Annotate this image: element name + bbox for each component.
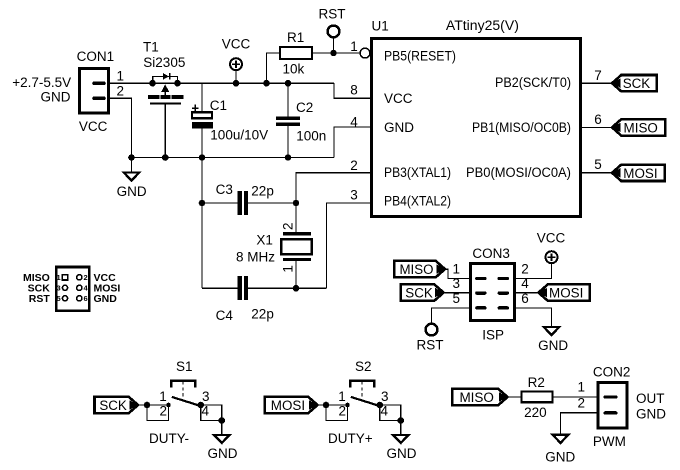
svg-text:PB4(XTAL2): PB4(XTAL2) (384, 193, 451, 208)
svg-text:CON3: CON3 (472, 246, 510, 261)
svg-text:R2: R2 (528, 375, 545, 390)
svg-text:8 MHz: 8 MHz (236, 250, 275, 265)
svg-text:5: 5 (57, 294, 61, 303)
svg-text:RST: RST (417, 338, 444, 353)
svg-text:PB3(XTAL1): PB3(XTAL1) (384, 165, 451, 180)
svg-text:MISO: MISO (459, 390, 494, 405)
svg-text:1: 1 (117, 68, 125, 83)
svg-text:SCK: SCK (405, 286, 433, 301)
svg-text:PB2(SCK/T0): PB2(SCK/T0) (495, 75, 571, 90)
svg-text:5: 5 (594, 157, 602, 172)
svg-text:2: 2 (521, 262, 529, 277)
svg-text:C2: C2 (296, 100, 313, 115)
svg-text:Si2305: Si2305 (143, 55, 185, 70)
svg-text:4: 4 (521, 276, 529, 291)
svg-text:GND: GND (94, 293, 118, 305)
svg-text:U1: U1 (372, 19, 389, 34)
svg-text:S2: S2 (355, 359, 372, 374)
svg-text:R1: R1 (287, 30, 304, 45)
svg-text:MOSI: MOSI (271, 398, 305, 413)
svg-text:RST: RST (319, 7, 346, 22)
svg-text:SCK: SCK (623, 76, 651, 91)
svg-text:2: 2 (339, 403, 347, 418)
svg-text:ISP: ISP (482, 327, 504, 342)
svg-text:VCC: VCC (79, 119, 108, 134)
svg-text:3: 3 (202, 389, 210, 404)
svg-text:2: 2 (350, 158, 358, 173)
svg-text:4: 4 (350, 114, 358, 129)
svg-text:22p: 22p (251, 306, 274, 321)
svg-text:1: 1 (159, 389, 167, 404)
svg-text:GND: GND (387, 446, 417, 461)
svg-text:VCC: VCC (384, 91, 413, 106)
svg-text:2: 2 (280, 222, 295, 230)
svg-text:4: 4 (202, 403, 210, 418)
svg-text:1: 1 (338, 389, 346, 404)
svg-text:C3: C3 (216, 182, 233, 197)
svg-text:PB0(MOSI/OC0A): PB0(MOSI/OC0A) (466, 165, 571, 180)
svg-text:X1: X1 (256, 233, 273, 248)
svg-text:DUTY+: DUTY+ (328, 431, 373, 446)
svg-text:5: 5 (452, 291, 460, 306)
svg-text:C4: C4 (216, 308, 234, 323)
svg-text:GND: GND (545, 449, 575, 464)
svg-text:2: 2 (160, 403, 168, 418)
svg-text:8: 8 (350, 83, 358, 98)
svg-text:GND: GND (41, 90, 71, 105)
svg-text:VCC: VCC (222, 37, 251, 52)
svg-text:6: 6 (521, 291, 529, 306)
svg-text:PWM: PWM (593, 434, 626, 449)
svg-text:3: 3 (381, 389, 389, 404)
svg-text:6: 6 (84, 294, 88, 303)
svg-text:MISO: MISO (399, 262, 433, 277)
svg-text:MOSI: MOSI (549, 286, 583, 301)
svg-text:GND: GND (208, 446, 238, 461)
svg-text:CON2: CON2 (593, 365, 631, 380)
svg-text:1: 1 (57, 273, 61, 282)
svg-text:3: 3 (57, 283, 61, 292)
svg-text:GND: GND (384, 120, 414, 135)
svg-text:C1: C1 (210, 98, 227, 113)
svg-text:1: 1 (280, 265, 295, 273)
svg-text:+2.7-5.5V: +2.7-5.5V (12, 75, 71, 90)
svg-text:OUT: OUT (636, 391, 665, 406)
svg-text:2: 2 (84, 273, 88, 282)
svg-text:3: 3 (452, 276, 460, 291)
svg-text:1: 1 (577, 380, 585, 395)
svg-text:T1: T1 (143, 39, 159, 54)
svg-text:PB1(MISO/OC0B): PB1(MISO/OC0B) (472, 120, 571, 135)
svg-text:GND: GND (117, 184, 147, 199)
svg-text:2: 2 (577, 396, 585, 411)
svg-text:SCK: SCK (99, 398, 127, 413)
svg-text:GND: GND (538, 338, 568, 353)
svg-text:ATtiny25(V): ATtiny25(V) (446, 18, 519, 33)
svg-text:RST: RST (29, 293, 51, 305)
svg-text:1: 1 (350, 39, 358, 54)
svg-text:MOSI: MOSI (623, 166, 657, 181)
svg-text:100n: 100n (296, 128, 326, 143)
svg-text:10k: 10k (283, 61, 305, 76)
svg-text:S1: S1 (176, 359, 193, 374)
svg-text:1: 1 (452, 262, 460, 277)
svg-text:7: 7 (594, 68, 602, 83)
svg-text:VCC: VCC (537, 231, 566, 246)
svg-text:GND: GND (636, 407, 666, 422)
svg-text:220: 220 (524, 405, 547, 420)
svg-text:2: 2 (117, 83, 125, 98)
svg-text:22p: 22p (251, 184, 274, 199)
svg-text:6: 6 (594, 112, 602, 127)
svg-text:100u/10V: 100u/10V (210, 128, 268, 143)
svg-text:DUTY-: DUTY- (149, 431, 189, 446)
svg-text:MISO: MISO (624, 120, 658, 135)
svg-text:3: 3 (350, 187, 358, 202)
svg-text:CON1: CON1 (77, 49, 115, 64)
svg-text:PB5(RESET): PB5(RESET) (384, 49, 456, 64)
svg-text:4: 4 (381, 403, 389, 418)
